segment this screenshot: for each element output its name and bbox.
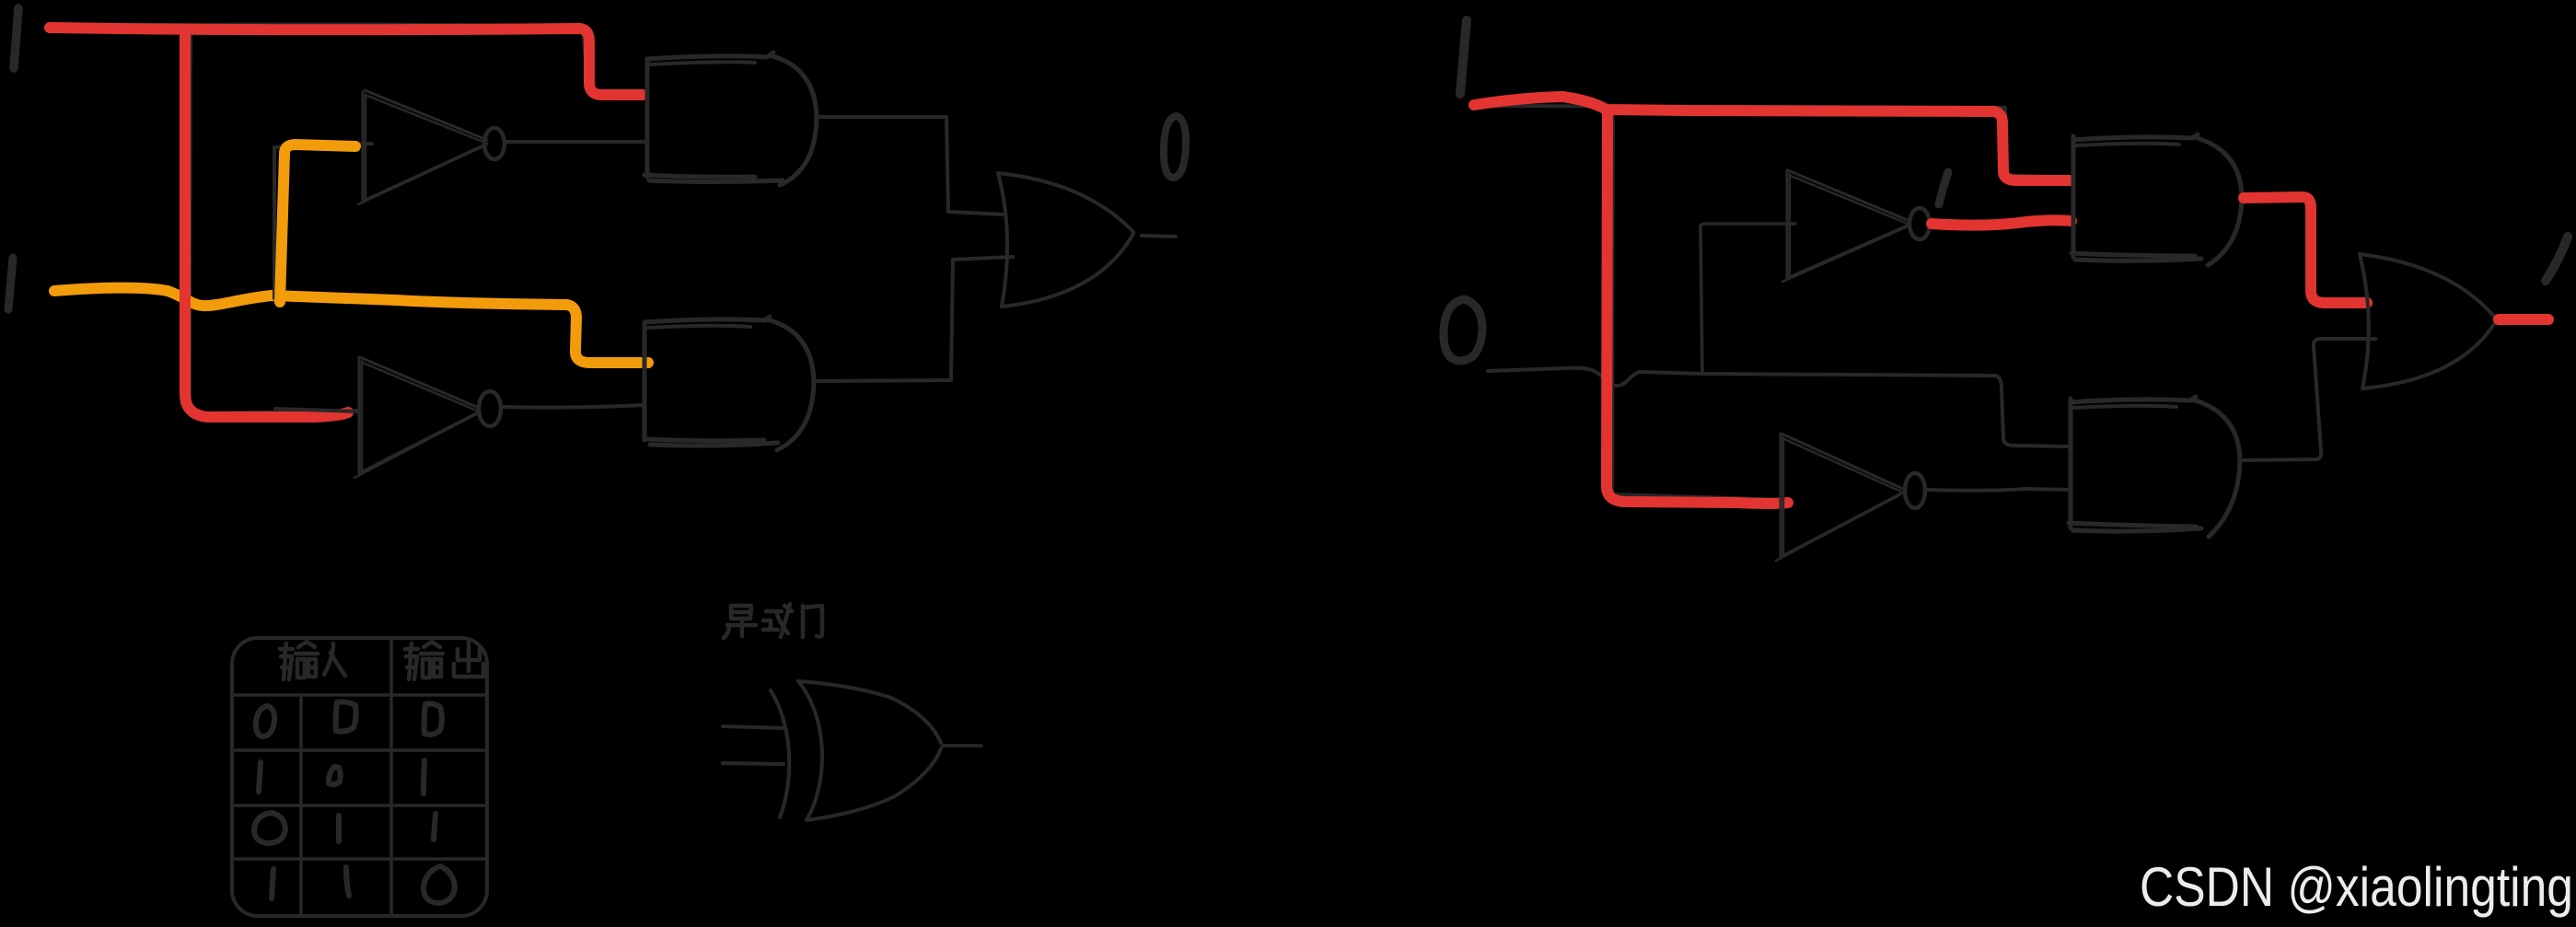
truth table frame	[232, 638, 487, 916]
wire U10 output highlight red	[2499, 314, 2548, 325]
label 异或门 (XOR gate) glyphs	[724, 604, 822, 638]
xor output wire	[943, 744, 981, 747]
table cell r4c1 1	[272, 869, 273, 898]
wire node A1 branch vertical (dark)	[190, 28, 357, 413]
wire B1 input (dark)	[63, 287, 643, 361]
输 left radical	[405, 643, 418, 679]
not-gate U7	[1776, 434, 1925, 561]
table row line 2	[232, 748, 487, 752]
table cell r2c1 1	[259, 762, 261, 792]
table header 输出 (output) glyphs	[405, 642, 483, 679]
wire U6 output highlight red	[1932, 220, 2071, 225]
wire U9 output to OR U10	[2240, 339, 2375, 460]
wire U4 output to OR U5	[814, 257, 1013, 381]
wire U5 output	[1142, 236, 1176, 237]
入	[324, 643, 345, 676]
xor input wire bottom	[723, 763, 783, 764]
wire A1 highlight red	[50, 28, 643, 95]
wire A1 branch highlight red	[185, 29, 348, 417]
table row line 4	[232, 857, 487, 861]
wire U2 input stub (dark)	[275, 409, 357, 411]
input label A1 value 1	[14, 8, 18, 68]
输 left radical (car)	[280, 643, 293, 679]
wire node A2 branch vertical (dark)	[1612, 110, 1784, 500]
table cell r3c3 1	[434, 814, 435, 840]
or-gate U5	[998, 173, 1133, 307]
wire U2 output to AND U4	[502, 405, 644, 408]
出	[454, 642, 483, 677]
table cell r4c3 0	[424, 866, 455, 903]
wire A2 highlight red	[1474, 97, 2070, 180]
and-gate U9	[2069, 397, 2240, 537]
label U6 output value 1	[1939, 172, 1948, 204]
table divider vertical inner	[299, 695, 303, 916]
output label value 1	[2546, 237, 2568, 281]
table row line 1	[232, 693, 487, 697]
table cell r3c1 0	[254, 813, 285, 843]
wire A1 to AND U3 (dark)	[53, 25, 646, 94]
table cell r1c1 0	[256, 706, 274, 736]
异	[724, 606, 756, 638]
xor input wire top	[723, 726, 785, 728]
wire U3 output to OR U5	[818, 117, 1004, 214]
wire U1 output to AND U3	[505, 140, 646, 144]
wire B2 branch to NOT U6 (dark)	[1700, 224, 1795, 374]
table row line 3	[232, 804, 487, 807]
wire B1 highlight orange	[54, 288, 648, 363]
input label A2 value 1	[1460, 20, 1467, 94]
输 right part	[296, 642, 318, 678]
或	[763, 604, 792, 637]
门	[803, 606, 822, 637]
wire B1 branch to NOT U1 (dark)	[274, 144, 372, 298]
or-gate U10	[2360, 254, 2496, 388]
table divider vertical output column	[389, 638, 393, 916]
wire A2 branch highlight red	[1607, 110, 1788, 504]
wire B2 input (dark)	[1488, 368, 2068, 446]
input label B2 value 0	[1444, 299, 1482, 361]
svg-text:CSDN @xiaolingting: CSDN @xiaolingting	[2140, 856, 2573, 918]
table header 输入 (input) glyphs	[280, 642, 345, 679]
not-gate U2	[354, 357, 501, 478]
table cell r3c2 1	[336, 816, 342, 841]
table cell r1c2 0	[336, 701, 356, 731]
and-gate U4	[644, 317, 814, 450]
input label B1 value 1	[8, 258, 13, 309]
table cell r4c2 1	[346, 867, 349, 896]
table cell r2c2 0	[329, 767, 341, 784]
table cell r2c3 1	[424, 760, 424, 794]
wire B1 branch highlight orange	[280, 145, 355, 302]
wire U7 output to AND U9	[1927, 489, 2071, 491]
wire A2 to AND U8 (dark)	[1478, 106, 2069, 178]
not-gate U6	[1782, 170, 1930, 282]
wire U8 output highlight red	[2244, 197, 2367, 303]
xor-gate symbol	[723, 681, 981, 820]
and-gate U8	[2071, 134, 2242, 265]
table cell r1c3 0	[424, 703, 442, 734]
not-gate U1	[358, 90, 505, 204]
输 right part	[421, 642, 443, 678]
output label value 0	[1164, 116, 1186, 178]
and-gate U3	[644, 52, 817, 185]
